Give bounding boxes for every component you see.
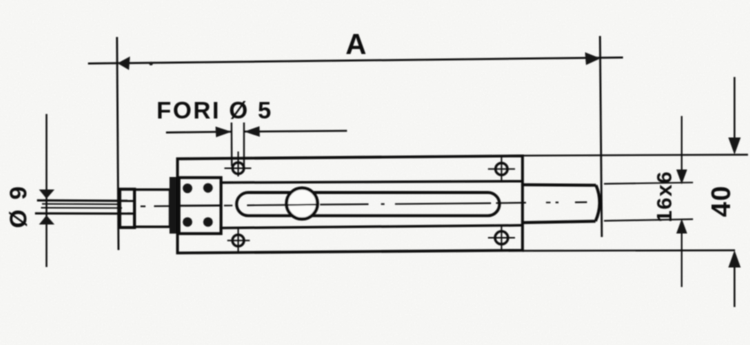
svg-text:FORI Ø 5: FORI Ø 5 bbox=[157, 98, 273, 125]
plate bolt bottom-right bbox=[203, 217, 213, 227]
dimension A line bbox=[88, 58, 623, 64]
rod line 1 (top edge of Ø9 rod) bbox=[37, 199, 133, 202]
svg-text:Ø 9: Ø 9 bbox=[6, 185, 33, 228]
screw hole top-left circle bbox=[233, 163, 244, 174]
plate edge thick bar bbox=[170, 177, 180, 234]
Ø9 down arrowhead bbox=[39, 190, 55, 199]
svg-text:A: A bbox=[346, 29, 367, 61]
body bottom extension line bbox=[523, 249, 736, 252]
screw hole bottom-left circle bbox=[232, 235, 244, 247]
16x6 down arrowhead bbox=[676, 170, 687, 185]
mounting plate bbox=[179, 178, 221, 234]
dimension A extension line right bbox=[600, 36, 602, 237]
dimension A left arrowhead bbox=[118, 57, 131, 71]
knob circle bbox=[287, 188, 318, 219]
bolt rod rounded tip bbox=[596, 185, 600, 221]
FORI left arrowhead bbox=[216, 127, 232, 138]
screw hole top-right cross bbox=[501, 155, 503, 182]
16x6 up arrowhead bbox=[676, 219, 687, 234]
FORI extension line right bbox=[243, 123, 245, 167]
svg-text:40: 40 bbox=[706, 185, 736, 217]
slot bbox=[237, 193, 500, 216]
plate bolt top-left bbox=[183, 184, 193, 194]
dimension A extension line left bbox=[117, 37, 119, 250]
svg-text:16x6: 16x6 bbox=[653, 171, 677, 223]
40 dimension line lower bbox=[734, 267, 736, 307]
rod top extension line bbox=[604, 183, 693, 184]
bar channel bottom line bbox=[220, 225, 523, 228]
screw hole bottom-left cross bbox=[237, 229, 239, 254]
screw hole bottom-right cross bbox=[501, 225, 503, 250]
bolt rod right top edge bbox=[523, 183, 597, 186]
FORI dimension line right segment bbox=[244, 130, 347, 133]
rod barrel bbox=[135, 190, 171, 227]
body outline bbox=[178, 156, 523, 253]
rod bottom extension line bbox=[604, 219, 693, 221]
Ø9 up arrowhead bbox=[39, 215, 55, 224]
plate middle line bbox=[179, 205, 221, 207]
16x6 dimension line lower bbox=[681, 233, 683, 287]
plate bolt top-right bbox=[203, 183, 213, 193]
rod line 3 bbox=[41, 207, 122, 209]
FORI right arrowhead bbox=[244, 126, 260, 137]
dimension A right arrowhead bbox=[585, 52, 601, 65]
screw hole top-left cross bbox=[237, 152, 239, 177]
FORI dimension line left segment bbox=[166, 131, 232, 134]
speck on dimension A line bbox=[149, 62, 153, 66]
40 down arrowhead bbox=[728, 138, 740, 155]
paper grain bbox=[0, 0, 1, 1]
bar channel top line bbox=[220, 181, 523, 182]
rod end cap bbox=[120, 189, 135, 227]
FORI extension line left bbox=[231, 123, 233, 167]
screw hole top-right circle bbox=[496, 163, 508, 175]
bolt rod right bottom edge bbox=[523, 221, 596, 222]
Ø9 dimension line bbox=[46, 114, 48, 267]
body top extension line bbox=[523, 154, 749, 157]
plate bolt bottom-left bbox=[183, 217, 193, 227]
16x6 dimension line upper bbox=[681, 116, 683, 171]
rod line 2 bbox=[42, 203, 118, 205]
screw hole bottom-right circle bbox=[495, 231, 508, 244]
40 dimension line upper bbox=[734, 77, 736, 138]
rod line 4 (bottom edge of Ø9 rod) bbox=[35, 212, 133, 215]
centerline (dash-dot) bbox=[141, 202, 588, 206]
40 up arrowhead bbox=[728, 250, 740, 267]
